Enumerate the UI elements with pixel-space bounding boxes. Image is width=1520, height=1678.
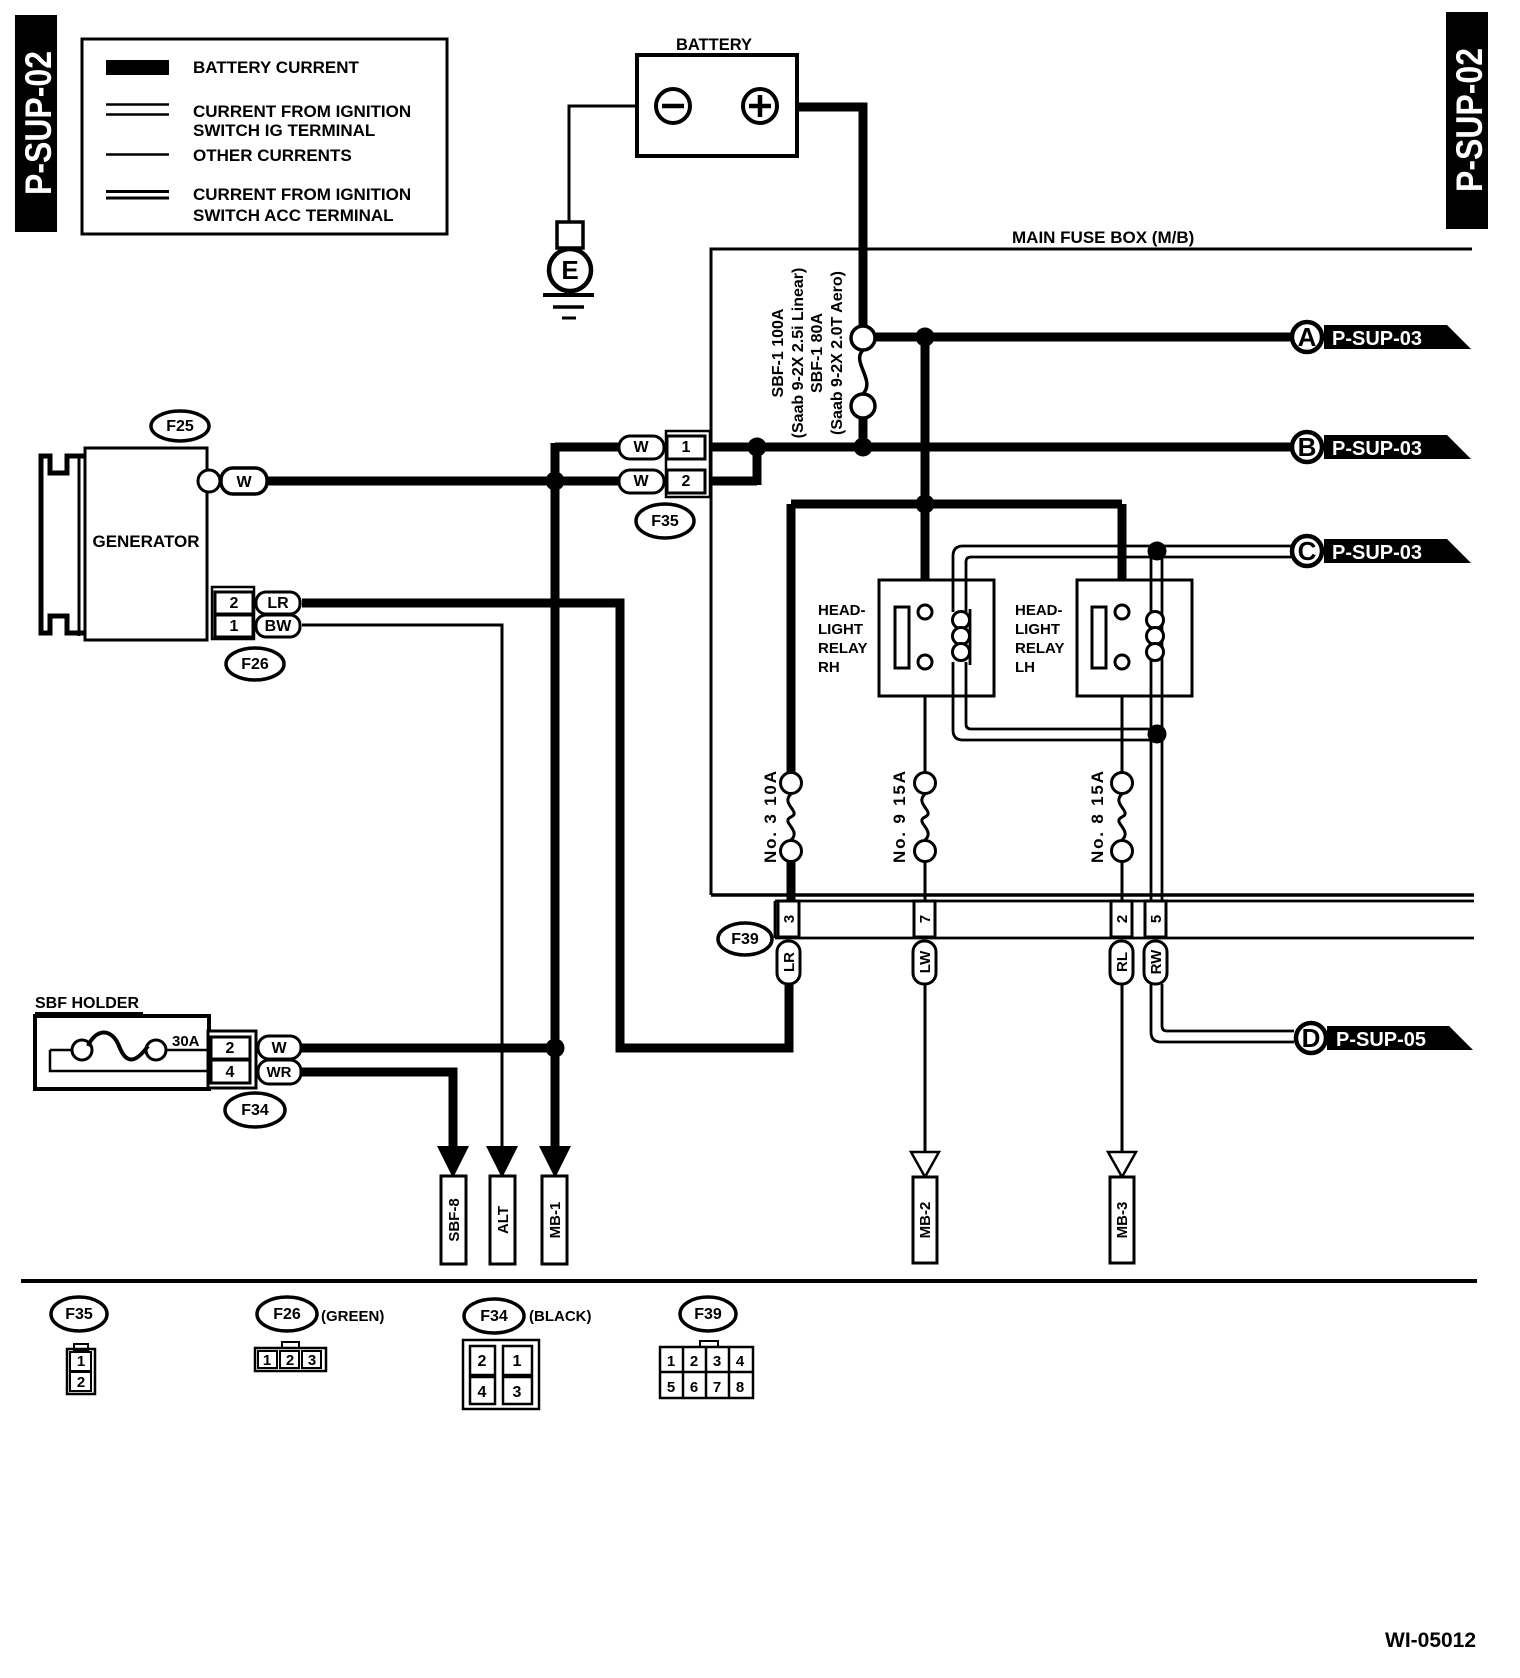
svg-text:F35: F35 bbox=[651, 513, 679, 530]
svg-text:LR: LR bbox=[781, 952, 798, 972]
svg-text:SBF-8: SBF-8 bbox=[446, 1198, 463, 1241]
svg-text:A: A bbox=[1298, 322, 1317, 352]
svg-text:D: D bbox=[1302, 1023, 1321, 1053]
svg-text:1: 1 bbox=[77, 1353, 85, 1370]
svg-text:RW: RW bbox=[1148, 949, 1165, 975]
svg-text:LH: LH bbox=[1015, 659, 1035, 676]
svg-text:2: 2 bbox=[1114, 915, 1131, 923]
svg-text:GENERATOR: GENERATOR bbox=[92, 532, 199, 551]
svg-text:CURRENT FROM IGNITION: CURRENT FROM IGNITION bbox=[193, 185, 411, 204]
svg-text:LW: LW bbox=[917, 950, 934, 973]
svg-text:8: 8 bbox=[736, 1379, 744, 1396]
svg-text:RL: RL bbox=[1114, 952, 1131, 972]
svg-text:2: 2 bbox=[682, 473, 691, 490]
svg-text:3: 3 bbox=[513, 1384, 522, 1401]
svg-text:OTHER CURRENTS: OTHER CURRENTS bbox=[193, 146, 352, 165]
svg-text:5: 5 bbox=[667, 1379, 675, 1396]
svg-text:(Saab 9-2X 2.0T Aero): (Saab 9-2X 2.0T Aero) bbox=[829, 271, 846, 435]
svg-text:C: C bbox=[1298, 536, 1317, 566]
svg-text:2: 2 bbox=[226, 1040, 235, 1057]
svg-text:LR: LR bbox=[267, 595, 289, 612]
svg-text:SBF-1 100A: SBF-1 100A bbox=[770, 308, 787, 397]
svg-text:(GREEN): (GREEN) bbox=[321, 1308, 384, 1325]
svg-text:MB-1: MB-1 bbox=[547, 1202, 564, 1239]
svg-text:WI-05012: WI-05012 bbox=[1385, 1629, 1476, 1652]
svg-text:E: E bbox=[561, 255, 578, 285]
svg-text:SBF HOLDER: SBF HOLDER bbox=[35, 995, 139, 1012]
svg-text:RELAY: RELAY bbox=[1015, 640, 1064, 657]
svg-text:P-SUP-05: P-SUP-05 bbox=[1336, 1029, 1426, 1051]
svg-text:F39: F39 bbox=[731, 931, 759, 948]
svg-text:WR: WR bbox=[267, 1064, 292, 1081]
svg-text:4: 4 bbox=[736, 1353, 745, 1370]
svg-text:ALT: ALT bbox=[495, 1206, 512, 1234]
svg-text:1: 1 bbox=[513, 1353, 522, 1370]
svg-text:P-SUP-02: P-SUP-02 bbox=[1449, 48, 1490, 192]
svg-text:2: 2 bbox=[478, 1353, 487, 1370]
svg-text:4: 4 bbox=[478, 1384, 487, 1401]
svg-text:F35: F35 bbox=[65, 1306, 93, 1323]
svg-text:P-SUP-03: P-SUP-03 bbox=[1332, 438, 1422, 460]
svg-text:3: 3 bbox=[308, 1352, 316, 1369]
svg-text:BW: BW bbox=[265, 618, 293, 635]
svg-text:F39: F39 bbox=[694, 1306, 722, 1323]
svg-text:P-SUP-02: P-SUP-02 bbox=[18, 51, 59, 195]
svg-text:2: 2 bbox=[690, 1353, 698, 1370]
svg-text:SBF-1 80A: SBF-1 80A bbox=[809, 313, 826, 393]
svg-text:F26: F26 bbox=[273, 1306, 301, 1323]
svg-text:1: 1 bbox=[230, 618, 239, 635]
svg-text:(BLACK): (BLACK) bbox=[529, 1308, 591, 1325]
svg-text:F26: F26 bbox=[241, 656, 269, 673]
svg-text:P-SUP-03: P-SUP-03 bbox=[1332, 542, 1422, 564]
svg-text:30A: 30A bbox=[172, 1033, 200, 1050]
svg-text:RH: RH bbox=[818, 659, 840, 676]
svg-text:F34: F34 bbox=[480, 1308, 508, 1325]
svg-text:7: 7 bbox=[917, 915, 934, 923]
svg-text:MAIN FUSE BOX (M/B): MAIN FUSE BOX (M/B) bbox=[1012, 228, 1194, 247]
svg-text:LIGHT: LIGHT bbox=[1015, 621, 1060, 638]
svg-text:HEAD-: HEAD- bbox=[818, 602, 866, 619]
svg-text:F25: F25 bbox=[166, 418, 194, 435]
svg-text:W: W bbox=[633, 473, 649, 490]
svg-text:2: 2 bbox=[286, 1352, 294, 1369]
svg-text:1: 1 bbox=[263, 1352, 271, 1369]
svg-text:BATTERY: BATTERY bbox=[676, 36, 752, 54]
svg-text:F34: F34 bbox=[241, 1102, 269, 1119]
svg-text:1: 1 bbox=[667, 1353, 675, 1370]
svg-text:SWITCH ACC TERMINAL: SWITCH ACC TERMINAL bbox=[193, 206, 394, 225]
svg-text:3: 3 bbox=[713, 1353, 721, 1370]
svg-text:LIGHT: LIGHT bbox=[818, 621, 863, 638]
svg-text:W: W bbox=[236, 474, 252, 491]
svg-text:(Saab 9-2X 2.5i Linear): (Saab 9-2X 2.5i Linear) bbox=[790, 268, 807, 439]
svg-text:3: 3 bbox=[781, 915, 798, 923]
svg-text:5: 5 bbox=[1148, 915, 1165, 923]
svg-text:HEAD-: HEAD- bbox=[1015, 602, 1063, 619]
svg-text:W: W bbox=[633, 439, 649, 456]
svg-text:7: 7 bbox=[713, 1379, 721, 1396]
svg-text:MB-3: MB-3 bbox=[1114, 1202, 1131, 1239]
svg-text:P-SUP-03: P-SUP-03 bbox=[1332, 328, 1422, 350]
svg-text:2: 2 bbox=[77, 1374, 85, 1391]
svg-text:RELAY: RELAY bbox=[818, 640, 867, 657]
svg-text:BATTERY CURRENT: BATTERY CURRENT bbox=[193, 58, 360, 77]
svg-text:CURRENT FROM IGNITION: CURRENT FROM IGNITION bbox=[193, 102, 411, 121]
svg-text:1: 1 bbox=[682, 439, 691, 456]
svg-text:MB-2: MB-2 bbox=[917, 1202, 934, 1239]
svg-text:SWITCH IG TERMINAL: SWITCH IG TERMINAL bbox=[193, 121, 375, 140]
svg-text:W: W bbox=[271, 1040, 287, 1057]
svg-text:4: 4 bbox=[226, 1064, 235, 1081]
svg-text:B: B bbox=[1298, 432, 1317, 462]
svg-text:2: 2 bbox=[230, 595, 239, 612]
svg-text:6: 6 bbox=[690, 1379, 698, 1396]
